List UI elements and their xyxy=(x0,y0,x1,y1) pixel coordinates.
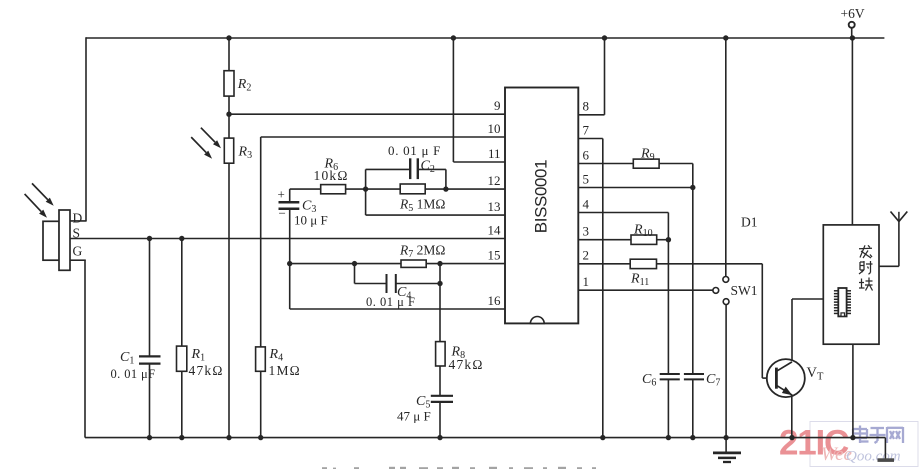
svg-text:10: 10 xyxy=(488,121,501,136)
svg-text:6: 6 xyxy=(583,147,590,162)
svg-text:S: S xyxy=(73,226,81,241)
svg-text:8: 8 xyxy=(583,99,590,114)
svg-text:13: 13 xyxy=(488,199,501,214)
svg-text:10 μ F: 10 μ F xyxy=(294,213,328,228)
svg-text:16: 16 xyxy=(488,293,502,308)
svg-text:+6V: +6V xyxy=(841,6,865,21)
svg-text:D: D xyxy=(73,210,83,225)
svg-text:+: + xyxy=(278,187,285,202)
svg-text:7: 7 xyxy=(583,122,590,137)
svg-text:Qoo.com: Qoo.com xyxy=(846,449,901,465)
svg-text:3: 3 xyxy=(583,224,590,239)
svg-text:47kΩ: 47kΩ xyxy=(189,363,224,378)
svg-text:1MΩ: 1MΩ xyxy=(269,363,301,378)
svg-text:0. 01 μF: 0. 01 μF xyxy=(111,367,156,381)
svg-text:14: 14 xyxy=(488,222,502,237)
svg-text:10kΩ: 10kΩ xyxy=(314,168,349,183)
svg-text:4: 4 xyxy=(583,196,590,211)
svg-text:−: − xyxy=(279,206,286,221)
svg-text:BISS0001: BISS0001 xyxy=(531,160,550,233)
svg-text:47kΩ: 47kΩ xyxy=(449,357,484,372)
svg-text:R5 1MΩ: R5 1MΩ xyxy=(399,197,445,215)
svg-text:9: 9 xyxy=(494,98,501,113)
svg-text:D1: D1 xyxy=(741,215,758,230)
svg-text:0. 01 μ F: 0. 01 μ F xyxy=(388,143,441,158)
svg-text:11: 11 xyxy=(488,146,501,161)
svg-text:0. 01 μ F: 0. 01 μ F xyxy=(366,295,415,309)
svg-text:G: G xyxy=(73,244,83,259)
svg-text:2: 2 xyxy=(583,248,590,263)
svg-text:R7 2MΩ: R7 2MΩ xyxy=(399,243,445,261)
svg-text:12: 12 xyxy=(488,173,501,188)
svg-text:15: 15 xyxy=(488,247,501,262)
svg-text:47 μ F: 47 μ F xyxy=(397,409,431,424)
svg-text:5: 5 xyxy=(583,171,590,186)
svg-text:SW1: SW1 xyxy=(731,283,758,298)
svg-text:1: 1 xyxy=(583,274,590,289)
